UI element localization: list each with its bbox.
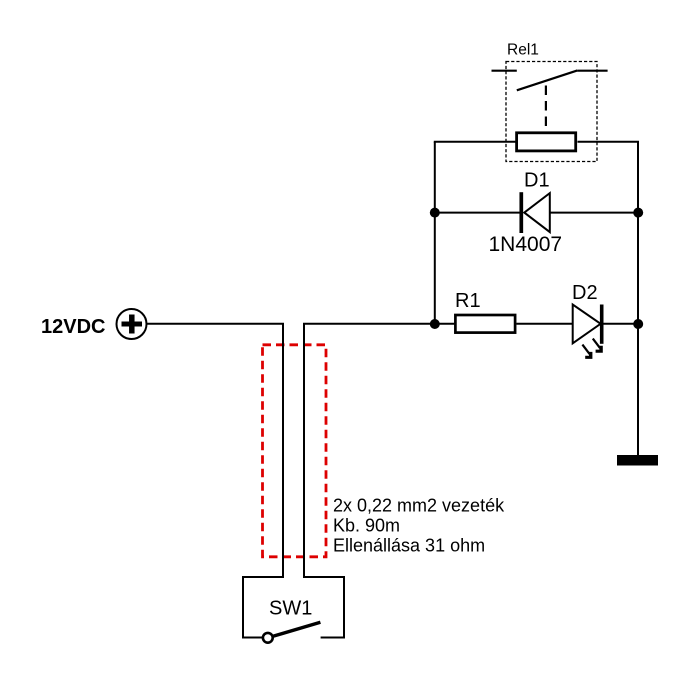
relay contact left lead	[492, 70, 517, 72]
node A junction dot	[430, 319, 440, 329]
svg-text:R1: R1	[455, 290, 481, 312]
svg-text:Ellenállása 31 ohm: Ellenállása 31 ohm	[333, 536, 485, 556]
battery source B1 (circle with plus)	[117, 309, 147, 339]
svg-text:D1: D1	[524, 170, 550, 192]
switch SW1 enclosure	[243, 577, 344, 638]
wire R1 to D2	[517, 323, 573, 325]
resistor R1	[455, 315, 515, 333]
ground	[617, 455, 658, 466]
right rail wire	[637, 142, 639, 456]
relay boundary dotted box	[506, 62, 597, 162]
wire from cable up-leg to node A	[304, 324, 435, 578]
node C junction dot (left rail at D1 row)	[430, 208, 440, 218]
switch SW1 pivot	[263, 633, 273, 643]
wire D2 to right rail	[604, 323, 639, 325]
node B junction dot (right rail at LED row)	[633, 319, 643, 329]
svg-text:SW1: SW1	[269, 598, 312, 620]
relay Rel1	[492, 62, 608, 162]
relay actuator dashed link	[545, 86, 547, 127]
diode D1	[521, 192, 550, 233]
svg-text:12VDC: 12VDC	[41, 316, 105, 338]
svg-text:Rel1: Rel1	[507, 42, 539, 59]
svg-text:D2: D2	[572, 282, 598, 304]
relay contact armature	[517, 70, 578, 90]
coil wire right	[578, 141, 640, 143]
svg-text:1N4007: 1N4007	[489, 233, 563, 256]
left rail wire	[434, 142, 436, 324]
switch SW1 lever	[273, 622, 320, 636]
svg-text:Kb. 90m: Kb. 90m	[333, 516, 400, 536]
relay coil	[517, 133, 576, 151]
svg-text:2x 0,22 mm2 vezeték: 2x 0,22 mm2 vezeték	[333, 496, 505, 516]
LED D2	[573, 305, 603, 359]
cable note text	[333, 496, 505, 556]
coil wire left	[434, 141, 516, 143]
wire from source to cable down-leg	[146, 324, 283, 578]
node D junction dot (right rail at D1 row)	[633, 208, 643, 218]
wire D1 to right rail	[550, 212, 638, 214]
wire node A to R1	[435, 323, 455, 325]
D1 row: wire left	[435, 212, 522, 214]
LED arrows	[582, 339, 602, 359]
relay contact right lead	[577, 70, 607, 72]
cable bundle box (red dashed)	[263, 345, 327, 557]
